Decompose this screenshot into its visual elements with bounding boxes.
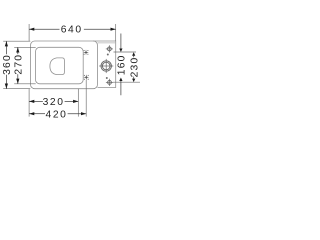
svg-text:420: 420 bbox=[46, 109, 68, 120]
svg-text:320: 320 bbox=[43, 97, 65, 108]
svg-text:360: 360 bbox=[2, 54, 13, 75]
svg-text:640: 640 bbox=[61, 24, 83, 35]
svg-text:160: 160 bbox=[116, 54, 127, 75]
svg-text:270: 270 bbox=[14, 54, 25, 75]
svg-text:230: 230 bbox=[129, 57, 140, 78]
